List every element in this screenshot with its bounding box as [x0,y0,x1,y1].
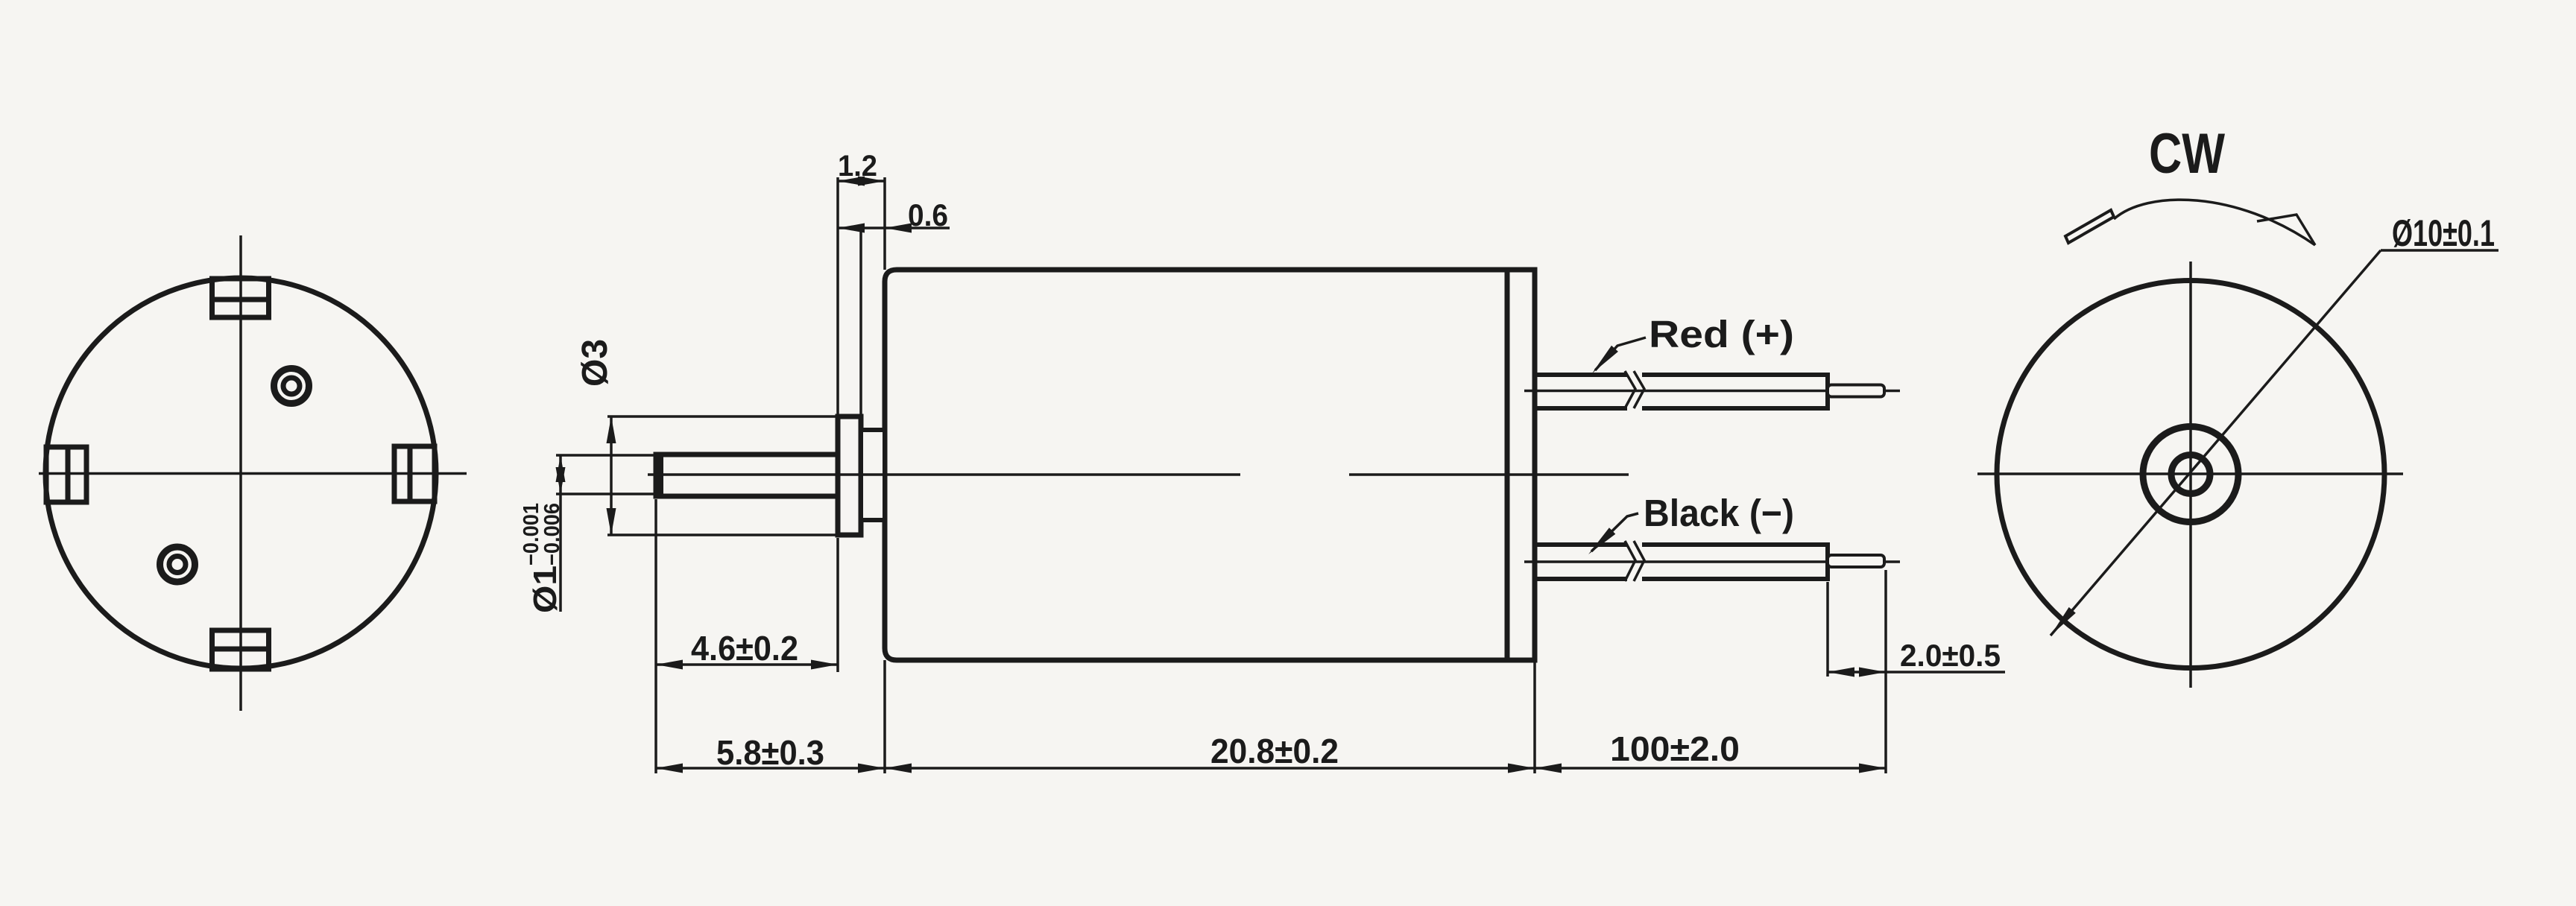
dim 2.0 extension line [1826,582,1829,677]
shaft end cap [655,454,663,496]
motor body [885,270,1535,660]
front view horizontal centerline [39,472,467,475]
dim 2.0 line [1828,668,2005,677]
dim dia1 line [556,455,566,612]
black wire label leader [1588,513,1638,554]
rear view horizontal centerline [1977,472,2403,475]
dim 100 text [1610,729,1740,768]
shaft [656,454,838,496]
end cap line [1505,270,1510,660]
dim 1.2 extension lines [838,177,885,416]
dim 5.8 line [656,764,885,773]
dim 100 line [1535,764,1886,773]
rear view outer circle [1997,281,2384,668]
dim 4.6 extension lines [656,499,838,773]
dim 4.6 text [691,629,798,668]
dim 2.0 text [1900,638,2001,673]
svg-text:Ø1: Ø1 [527,566,563,613]
right mounting tab [394,446,435,501]
dim 0.6 line [838,224,950,233]
dim 4.6 line [656,660,838,670]
left mounting tab [46,447,86,502]
dim dia3 text [575,339,615,387]
svg-text:100±2.0: 100±2.0 [1610,729,1740,768]
black wire bare end [1828,555,1884,567]
svg-text:Red (+): Red (+) [1649,313,1794,355]
assembly centerline [648,473,1629,476]
dim 20.8 extension line [1533,660,1536,773]
front view motor outline circle [45,278,436,668]
red wire label leader [1592,338,1646,373]
bottom mounting tab [212,630,269,669]
svg-text:Ø10±0.1: Ø10±0.1 [2392,212,2495,254]
CW arc arrowhead [2257,215,2315,245]
svg-text:CW: CW [2149,122,2225,186]
red wire label [1649,313,1794,355]
black wire insulation [1535,541,1828,582]
svg-text:0.6: 0.6 [908,197,948,232]
upper rivet [274,369,309,404]
dim 5.8 text [716,733,824,772]
dim dia1 text with tolerances [520,503,564,613]
svg-text:2.0±0.5: 2.0±0.5 [1900,638,2001,673]
svg-text:Ø3: Ø3 [575,339,615,387]
front view vertical centerline [239,235,242,711]
bearing flange disc [838,416,861,535]
dim 100 extension line at wire tip [1884,570,1887,773]
dim 0.6 text [908,197,948,232]
red wire bare end [1828,385,1884,397]
CW text [2149,122,2225,186]
CW rotation arc [2114,200,2315,245]
svg-text:20.8±0.2: 20.8±0.2 [1210,732,1339,770]
svg-text:5.8±0.3: 5.8±0.3 [716,733,824,772]
dim 20.8 line [885,764,1535,773]
dim dia3 extension lines [607,416,838,535]
dim 5.8 extension line [883,660,886,773]
rear view shaft hole circle [2171,455,2210,494]
top mounting tab [212,279,269,317]
flange step [861,430,885,520]
CW arc tail flag [2065,210,2114,243]
rear view vertical centerline [2189,262,2192,688]
dia10 text [2392,212,2495,254]
lower rivet [160,547,195,582]
svg-text:−0.006: −0.006 [540,503,564,566]
dia10 leader line [2051,250,2498,636]
dim 20.8 text [1210,732,1339,770]
rear view boss circle [2143,427,2238,522]
dim 1.2 line [838,177,885,186]
svg-text:4.6±0.2: 4.6±0.2 [691,629,798,668]
dim 1.2 text [838,150,877,183]
red wire insulation [1535,371,1828,411]
svg-text:1.2: 1.2 [838,150,877,183]
red wire core line [1524,390,1900,393]
svg-text:Black (−): Black (−) [1644,492,1794,534]
dim dia1 extension lines [556,455,656,494]
dim 0.6 extension line [859,226,862,430]
black wire core line [1524,560,1900,563]
black wire label [1644,492,1794,534]
dim dia3 line [607,416,616,535]
